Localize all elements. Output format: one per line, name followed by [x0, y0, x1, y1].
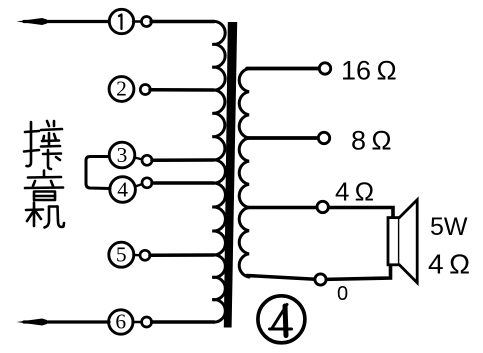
wire: bottom lead to amplifier [24, 320, 109, 323]
speaker LS cone [399, 200, 417, 283]
binding post 1 [133, 20, 141, 22]
wire: 16 ohm tap [247, 67, 318, 71]
terminal 3 [109, 142, 135, 168]
svg-text:2: 2 [116, 77, 127, 101]
figure number 4 circle [258, 296, 305, 343]
binding post 6 [133, 321, 143, 323]
text 机 (amplifier label, char 3) [26, 203, 64, 228]
figure number 4 digit [270, 305, 292, 330]
arrowhead bottom-left [17, 319, 48, 326]
transformer T primary winding [212, 21, 225, 322]
svg-text:16 Ω: 16 Ω [341, 56, 397, 86]
terminal 6 [109, 310, 133, 334]
node 16 ohm terminal [319, 63, 330, 74]
speaker LS driver [388, 218, 399, 265]
binding post 2 [140, 85, 150, 95]
svg-text:3: 3 [117, 143, 128, 167]
wire: post 3 to primary tap [152, 158, 214, 162]
wire: bracket joining terminals 3 and 4 [86, 157, 110, 189]
node 0 terminal [315, 274, 326, 285]
wire: 8 ohm tap [247, 136, 317, 140]
wire: 4 ohm tap to speaker [247, 208, 393, 219]
wire: top lead to amplifier [24, 20, 109, 23]
wire: post 4 to primary tap [152, 181, 214, 185]
wire: 0 tap to speaker [247, 265, 391, 280]
svg-text:4 Ω: 4 Ω [428, 249, 470, 280]
svg-text:4: 4 [117, 177, 128, 201]
terminal 2 [109, 77, 134, 102]
wire: post 1 to primary top [151, 20, 214, 23]
wire: post 2 to primary tap [150, 88, 214, 92]
wire: post 5 to primary tap [150, 253, 214, 257]
arrowhead top-left [17, 18, 48, 25]
svg-text:5W: 5W [430, 213, 468, 241]
svg-text:4 Ω: 4 Ω [335, 177, 374, 207]
svg-text:5: 5 [116, 243, 127, 267]
label 1 [119, 15, 122, 30]
terminal 1 [109, 9, 133, 33]
text 音 (amplifier label, char 2) [25, 171, 63, 201]
terminal 5 [109, 242, 134, 267]
svg-text:6: 6 [115, 310, 126, 334]
svg-text:8 Ω: 8 Ω [351, 126, 392, 156]
text 擴 (amplifier label, char 1) [24, 121, 62, 169]
binding post 4 [135, 184, 143, 187]
wire: post 6 to primary bottom [152, 320, 215, 323]
binding post 5 [134, 254, 141, 257]
transformer core [224, 22, 237, 328]
svg-text:0: 0 [337, 283, 348, 305]
node 8 ohm terminal [318, 132, 329, 143]
transformer T secondary winding [239, 69, 249, 278]
binding post 3 [135, 158, 143, 160]
node 4 ohm terminal [317, 201, 328, 212]
terminal 4 [110, 177, 136, 203]
